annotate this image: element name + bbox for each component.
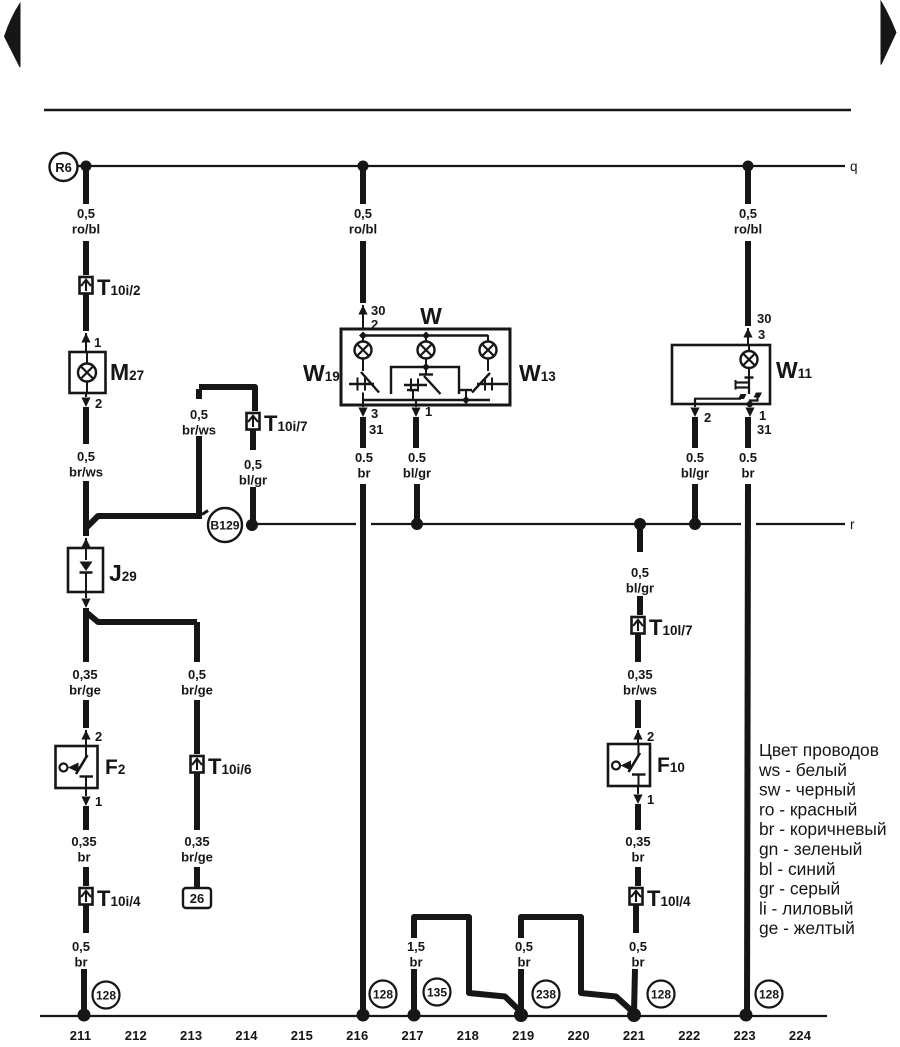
svg-text:F2: F2: [105, 756, 125, 779]
svg-text:bl/gr: bl/gr: [239, 473, 267, 488]
switch F2: [56, 746, 98, 788]
wire 0,5 br/ws stub: [196, 389, 202, 399]
wire 1,5 br stub: [411, 917, 417, 938]
svg-text:T10l/4: T10l/4: [647, 886, 691, 911]
wire 0,35 br/ge upper: [83, 608, 89, 662]
svg-text:br: br: [632, 955, 645, 970]
lamp W11 box: [672, 345, 770, 404]
wire 0,5 ro/bl lower: [360, 241, 366, 303]
svg-text:F10: F10: [657, 754, 685, 777]
svg-text:211: 211: [70, 1028, 92, 1043]
svg-text:26: 26: [190, 891, 204, 906]
svg-text:br: br: [742, 466, 755, 481]
wire into M27 pin 1: [83, 294, 89, 331]
connector T10i/4: [80, 888, 93, 905]
wire 0,35 br/ws upper: [635, 634, 641, 662]
ground point 128 (track 216): [370, 981, 397, 1008]
lamp unit W19/W13 box: [341, 329, 510, 405]
lamp 3 contact: [487, 359, 489, 372]
F2 pin 2: [81, 730, 90, 740]
svg-text:W13: W13: [519, 360, 556, 386]
svg-text:R6: R6: [55, 160, 72, 175]
wire 0,5 ro/bl upper: [83, 166, 89, 204]
node: ground 219: [515, 1009, 528, 1022]
svg-text:br/ws: br/ws: [69, 465, 103, 480]
internal top bus: [363, 334, 488, 336]
wire 0,5 bl/gr to node B129: [250, 487, 256, 521]
svg-text:T10l/7: T10l/7: [649, 615, 692, 640]
svg-text:0,5: 0,5: [631, 565, 649, 580]
wire 0,5 br to ground 221: [634, 969, 635, 1013]
node B129: [247, 520, 258, 531]
svg-text:238: 238: [536, 988, 556, 1002]
bus r: [252, 523, 356, 525]
switch F10: [608, 744, 650, 786]
wire 0.5 br to ground 216: [360, 484, 366, 1014]
svg-text:br/ge: br/ge: [181, 683, 213, 698]
nav arrow left: [5, 4, 21, 68]
terminal mark a: [407, 389, 419, 391]
lamp 2 contact: [419, 373, 433, 375]
svg-text:217: 217: [401, 1028, 423, 1043]
ground point 128 (track 211): [93, 982, 120, 1009]
svg-text:br/ws: br/ws: [182, 423, 216, 438]
wire 0,5 ro/bl lower: [745, 241, 751, 326]
svg-text:li - лиловый: li - лиловый: [759, 898, 854, 918]
svg-text:3: 3: [758, 327, 765, 342]
svg-text:216: 216: [346, 1028, 368, 1043]
svg-text:ro/bl: ro/bl: [72, 222, 100, 237]
svg-text:2: 2: [704, 410, 711, 425]
pin 30/2 of lamp unit: [358, 305, 367, 315]
svg-text:0,5: 0,5: [629, 939, 647, 954]
wire 0,5 br to ground 219: [518, 969, 524, 1013]
lamp 3: [487, 335, 489, 342]
wire 0,5 br upper: [83, 905, 89, 933]
pin 30/3 of lamp W11: [743, 328, 752, 338]
node: q-bus tap left: [81, 161, 91, 171]
svg-text:2: 2: [95, 396, 102, 411]
svg-text:0.5: 0.5: [408, 450, 426, 465]
svg-text:gn - зеленый: gn - зеленый: [759, 839, 862, 859]
wire q-bus stub from R6: [78, 165, 87, 167]
svg-text:bl - синий: bl - синий: [759, 859, 835, 879]
svg-text:215: 215: [291, 1028, 313, 1043]
svg-text:r: r: [850, 517, 855, 532]
svg-text:ws - белый: ws - белый: [758, 760, 847, 780]
wire 0,5 bl/gr upper: [637, 524, 643, 552]
node: junction above J29 / branch to T10i/7: [86, 516, 197, 528]
wire 0,5 br/ge upper: [194, 622, 200, 662]
svg-text:221: 221: [623, 1028, 645, 1043]
wire 0.5 bl/gr to bus r: [414, 484, 420, 521]
wire br/ws bend to junction: [199, 387, 255, 411]
ground point 135 (track 217): [424, 979, 451, 1006]
wire loop 2 right leg: [581, 917, 633, 1012]
wire 0,35 br lower: [635, 867, 641, 886]
svg-text:br: br: [518, 955, 531, 970]
svg-text:T10i/7: T10i/7: [264, 411, 307, 436]
svg-text:128: 128: [759, 988, 779, 1002]
svg-text:0,5: 0,5: [72, 939, 90, 954]
wire 0,35 br/ge upper: [194, 773, 200, 830]
svg-text:q: q: [850, 159, 858, 174]
lamp W11 contact: [745, 376, 754, 378]
connector 26: [183, 888, 211, 908]
internal bridge: [391, 367, 459, 394]
wire 0,35 br upper: [635, 804, 641, 830]
pin 1/31 of W11: [749, 404, 751, 407]
F10 pin 2: [633, 730, 642, 740]
svg-text:br/ge: br/ge: [181, 850, 213, 865]
svg-text:W19: W19: [303, 360, 340, 386]
wire 0.5 br upper: [745, 417, 751, 448]
wire 1,5 br loop top: [414, 917, 469, 920]
svg-text:0,35: 0,35: [184, 834, 209, 849]
svg-text:0,5: 0,5: [77, 449, 95, 464]
svg-text:1: 1: [94, 335, 101, 350]
wire 0,5 bl/gr upper: [250, 430, 256, 450]
svg-text:B129: B129: [210, 519, 239, 533]
relay J29: [68, 548, 103, 592]
node: branch below J29 to T10i/6: [86, 612, 197, 622]
wire 0,35 br/ws lower: [635, 700, 641, 728]
wire 0,5 br upper: [633, 905, 639, 933]
svg-text:128: 128: [651, 988, 671, 1002]
svg-text:31: 31: [369, 422, 383, 437]
lamp 1: [362, 335, 364, 342]
wire 0,5 br/ws upper: [83, 407, 89, 444]
svg-text:ge - желтый: ge - желтый: [759, 918, 855, 938]
svg-text:bl/gr: bl/gr: [626, 581, 654, 596]
wire 0.5 bl/gr upper: [692, 417, 698, 448]
wire 0,35 br upper: [83, 806, 89, 830]
svg-text:1: 1: [95, 794, 102, 809]
internal wire to pin 2: [695, 399, 741, 404]
svg-text:135: 135: [427, 986, 447, 1000]
wire 0,35 br/ge lower: [194, 867, 200, 888]
svg-text:0.5: 0.5: [686, 450, 704, 465]
current track numbers: [70, 1028, 812, 1043]
svg-text:31: 31: [757, 422, 771, 437]
wire 0,5 ro/bl upper: [360, 166, 366, 204]
svg-text:br: br: [358, 466, 371, 481]
wire 0,5 br stub: [518, 917, 524, 938]
wire 0,5 br/ge lower: [194, 700, 200, 754]
svg-text:br - коричневый: br - коричневый: [759, 819, 887, 839]
svg-text:M27: M27: [110, 359, 144, 385]
wire 0.5 bl/gr upper: [413, 417, 419, 448]
lamp M27: [70, 352, 106, 393]
wire into J29: [81, 538, 90, 548]
lamp 2: [425, 335, 427, 342]
svg-text:128: 128: [96, 989, 116, 1003]
node: q-bus tap right: [743, 161, 753, 171]
wire loop 1 right leg: [469, 917, 521, 1012]
wire 0.5 br upper: [360, 417, 366, 448]
svg-text:br/ws: br/ws: [623, 683, 657, 698]
bus q: [85, 165, 845, 167]
svg-text:2: 2: [647, 729, 654, 744]
svg-text:ro - красный: ro - красный: [759, 799, 857, 819]
svg-text:ro/bl: ro/bl: [349, 222, 377, 237]
svg-text:218: 218: [457, 1028, 479, 1043]
wire 1,5 br to ground 217: [411, 969, 417, 1013]
svg-text:gr - серый: gr - серый: [759, 879, 840, 899]
header rule: [44, 109, 851, 111]
wire 0,5 bl/gr lower: [637, 596, 643, 615]
legend: wire colours: [758, 740, 887, 938]
svg-text:br/ge: br/ge: [69, 683, 101, 698]
svg-text:2: 2: [95, 729, 102, 744]
pin 3/31: [362, 393, 364, 401]
svg-text:30: 30: [757, 311, 771, 326]
nav arrow right: [881, 2, 896, 65]
svg-text:0,5: 0,5: [77, 206, 95, 221]
node: bus r tap 2: [635, 519, 646, 530]
wire 0.5 bl/gr to bus r: [692, 484, 698, 521]
pin 1 of lamp unit: [415, 400, 417, 407]
connector T10l/4: [630, 888, 643, 905]
F10 pin 1: [637, 786, 639, 794]
svg-text:br: br: [78, 850, 91, 865]
terminal mark b: [460, 389, 472, 391]
svg-text:0,5: 0,5: [739, 206, 757, 221]
wire 0,5 br loop top: [521, 917, 581, 920]
svg-text:1: 1: [425, 404, 432, 419]
svg-text:213: 213: [180, 1028, 202, 1043]
svg-text:222: 222: [678, 1028, 700, 1043]
svg-text:br: br: [75, 955, 88, 970]
svg-text:Цвет проводов: Цвет проводов: [759, 740, 879, 760]
svg-text:1,5: 1,5: [407, 939, 425, 954]
svg-text:T10i/4: T10i/4: [97, 886, 141, 911]
wire 0.5 br to ground 223: [747, 484, 748, 1014]
wire 0,5 br to ground 211: [81, 969, 87, 1014]
current track rail: [40, 1015, 827, 1017]
connector T10i/6: [191, 756, 204, 773]
J29 lower pin: [85, 592, 87, 598]
svg-text:W11: W11: [776, 357, 812, 383]
terminal R6: [50, 153, 78, 181]
svg-text:sw - черный: sw - черный: [759, 780, 856, 800]
M27 pin 2: [85, 393, 87, 397]
svg-text:T10i/2: T10i/2: [97, 275, 140, 300]
wire 0,35 br/ge lower: [83, 700, 89, 728]
svg-text:0,5: 0,5: [190, 407, 208, 422]
wire 0,5 ro/bl upper: [745, 166, 751, 204]
svg-text:219: 219: [512, 1028, 534, 1043]
svg-text:30: 30: [371, 303, 385, 318]
svg-text:1: 1: [647, 792, 654, 807]
pin 2 of W11: [694, 404, 696, 407]
F2 pin 1: [85, 788, 87, 796]
svg-text:0,35: 0,35: [627, 667, 652, 682]
svg-text:224: 224: [789, 1028, 812, 1043]
svg-text:128: 128: [373, 988, 393, 1002]
svg-text:br: br: [410, 955, 423, 970]
wire 0,5 br/ws lower: [83, 481, 89, 536]
ground point 238 (track 219): [533, 981, 560, 1008]
svg-text:T10i/6: T10i/6: [208, 754, 252, 779]
svg-text:214: 214: [235, 1028, 258, 1043]
lamp 1 contact: [362, 359, 364, 372]
svg-text:0,5: 0,5: [244, 457, 262, 472]
svg-text:bl/gr: bl/gr: [681, 466, 709, 481]
connector T10i/7: [247, 413, 260, 430]
node: q-bus tap centre: [358, 161, 368, 171]
internal bottom bus: [363, 399, 490, 401]
svg-text:0,35: 0,35: [625, 834, 650, 849]
wire 0,35 br lower: [83, 867, 89, 886]
svg-text:0,35: 0,35: [71, 834, 96, 849]
ground point 128 (track 221): [648, 981, 675, 1008]
svg-text:0.5: 0.5: [739, 450, 757, 465]
node: bus r tap 3: [690, 519, 701, 530]
svg-text:0,5: 0,5: [515, 939, 533, 954]
svg-text:0,35: 0,35: [72, 667, 97, 682]
svg-text:ro/bl: ro/bl: [734, 222, 762, 237]
svg-text:bl/gr: bl/gr: [403, 466, 431, 481]
svg-text:223: 223: [734, 1028, 756, 1043]
lamp W11 bulb: [748, 345, 750, 351]
svg-text:J29: J29: [109, 560, 137, 586]
ground point 128 (track 223): [756, 981, 783, 1008]
wire 0,5 ro/bl lower: [83, 241, 89, 275]
svg-text:220: 220: [568, 1028, 590, 1043]
svg-text:212: 212: [125, 1028, 147, 1043]
node: ground 221: [628, 1009, 641, 1022]
connector T10l/7: [632, 617, 645, 634]
svg-text:0,5: 0,5: [354, 206, 372, 221]
svg-text:1: 1: [759, 408, 766, 423]
node: bus r tap 1: [412, 519, 423, 530]
svg-text:0,5: 0,5: [188, 667, 206, 682]
svg-text:3: 3: [371, 406, 378, 421]
svg-text:W: W: [420, 303, 442, 329]
svg-text:br: br: [632, 850, 645, 865]
connector T10i/2: [80, 277, 93, 294]
internal wire to pin 1: [750, 396, 758, 404]
wire br/ws vertical: [196, 436, 202, 519]
svg-text:0.5: 0.5: [355, 450, 373, 465]
